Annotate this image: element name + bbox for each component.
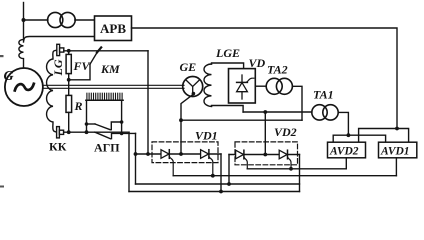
wire: GE output diagonal xyxy=(181,95,193,155)
thyristor VS4 xyxy=(279,150,287,159)
node: g4 on Wa xyxy=(289,167,293,171)
wire: L1 right drop to bottom bus xyxy=(220,154,222,192)
wire: W1 to TA1 xyxy=(243,111,312,113)
shaft double line G to GE xyxy=(43,84,184,86)
svg-text:KM: KM xyxy=(100,62,120,76)
generator G tilde xyxy=(15,84,34,91)
GE star xyxy=(186,80,200,97)
wire: Wb gate wire to VD1 xyxy=(173,175,396,177)
thyristor VS1 xyxy=(161,150,169,159)
AGP upper contact hook xyxy=(111,122,121,130)
node: top wire on L1 xyxy=(146,152,150,156)
svg-text:TA2: TA2 xyxy=(267,63,288,77)
node: L1 left junction xyxy=(134,152,138,156)
wire: We bottom bus xyxy=(129,191,300,193)
node: ARV on upper bar xyxy=(395,127,399,131)
transformer winding on bus (3 arcs) xyxy=(19,39,24,68)
slip ring brush KK top xyxy=(57,44,60,55)
thyristor block VD1 dashed box xyxy=(152,142,218,163)
svg-text:R: R xyxy=(74,99,83,113)
regulator ARV box xyxy=(95,16,132,41)
regulator AVD2 box xyxy=(328,142,366,158)
contactor KM blade xyxy=(90,52,98,65)
node: GE output terminal xyxy=(192,92,196,96)
node: TA1 on lower bar xyxy=(347,133,351,137)
transformer TV (two overlapping circles) xyxy=(48,12,63,27)
wire: TA2 return wire xyxy=(181,119,302,121)
contactor KM fixed contact tick xyxy=(97,47,101,52)
svg-text:АГП: АГП xyxy=(94,141,120,155)
wire: R chain from node xyxy=(68,80,70,96)
svg-text:АРВ: АРВ xyxy=(100,21,126,36)
wire: LGE top to VD box xyxy=(212,63,244,69)
thyristor block VD2 dashed box xyxy=(235,142,298,165)
wire: L1 thyristor wire xyxy=(136,153,222,155)
node: FV/KM junction xyxy=(67,78,71,82)
wire: TA1 to AVD bar xyxy=(338,112,348,135)
wire: FV bottom xyxy=(68,74,70,80)
node: GE feed on L1 xyxy=(179,152,183,156)
node: bus tap junction xyxy=(22,18,26,22)
wire: VD2 feed drop xyxy=(264,112,266,155)
wire: Wa gate wire to VD2 xyxy=(247,168,346,170)
node: upper contact hook xyxy=(120,120,124,124)
svg-text:G: G xyxy=(4,69,14,84)
svg-text:AVD1: AVD1 xyxy=(380,146,410,158)
node: L2 drop on Wcd xyxy=(227,182,231,186)
wire: upper bar with pins xyxy=(359,129,409,143)
current transformer TA2 xyxy=(266,78,282,94)
wire: TA2 loop down xyxy=(292,86,302,120)
wire: AVD2 gate output xyxy=(345,158,347,169)
node: FV tap xyxy=(67,49,71,53)
AGP upper contact stub xyxy=(87,123,96,125)
slip ring brush KK bottom xyxy=(57,127,60,138)
svg-text:VD: VD xyxy=(249,56,266,70)
AGP grid bottom rail xyxy=(86,99,123,101)
exciter field winding LGE (arcs) xyxy=(204,64,212,106)
node: upper contact stub xyxy=(85,122,89,126)
svg-text:LG: LG xyxy=(51,59,65,76)
wire: lower bar with pins xyxy=(333,135,385,142)
svg-text:LGE: LGE xyxy=(215,46,240,60)
node: AGP left leg on bottom wire xyxy=(85,130,89,134)
wire: L2 right drop xyxy=(299,155,301,192)
wire: LGE bottom xyxy=(212,106,244,113)
wire: top field wire drop to VD1 xyxy=(147,51,149,154)
thyristor VS3 xyxy=(236,150,244,159)
svg-text:VD1: VD1 xyxy=(195,129,218,143)
wire: AGP contact to L1 drop xyxy=(135,133,137,184)
AGP arc-quenching grid comb xyxy=(87,93,122,100)
node: VD2 feed on L2 xyxy=(263,153,267,157)
node: VD2 feed tap xyxy=(263,110,267,114)
AGP upper contact blade xyxy=(95,124,110,130)
svg-text:GE: GE xyxy=(180,60,197,74)
regulator AVD1 box xyxy=(379,142,417,158)
wire: KM return loop xyxy=(69,64,90,80)
node: R to bottom wire xyxy=(67,130,71,134)
field winding LG (arcs) xyxy=(47,50,57,132)
AGP lower contact hook xyxy=(112,133,136,138)
wire: AGP grid left leg xyxy=(86,100,88,132)
wire: AVD1 gate output xyxy=(395,158,397,176)
wire: VT line to ARV input 1 xyxy=(24,19,48,21)
exciter GE circle xyxy=(183,77,203,97)
svg-text:AVD2: AVD2 xyxy=(329,146,359,158)
rectifier VD box xyxy=(229,69,256,103)
wire: VD to TA2 xyxy=(255,85,266,87)
wire: second ARV input from bus xyxy=(24,37,95,43)
node: L1 drop on We xyxy=(219,190,223,194)
wire: AGP grid right leg xyxy=(121,100,123,133)
thyristor VD symbol xyxy=(241,75,243,99)
svg-text:FV: FV xyxy=(73,59,91,73)
node: lower contact hook xyxy=(120,132,124,136)
wire: FV stub xyxy=(68,51,70,55)
wire: R bottom xyxy=(68,112,70,132)
wire: field negative drop to bottom bus xyxy=(128,132,130,191)
node: GE wire to TA2 loop xyxy=(179,118,183,122)
wire: L2 thyristor wire xyxy=(229,154,300,156)
svg-text:КК: КК xyxy=(49,140,67,154)
wire: Wcd bus xyxy=(136,183,300,185)
svg-text:VD2: VD2 xyxy=(274,125,297,139)
resistor R xyxy=(66,95,72,112)
wire: ARV output to right xyxy=(132,28,398,129)
wire: top field wire xyxy=(64,50,148,52)
current transformer TA1 xyxy=(312,105,327,120)
AGP lower contact blade xyxy=(95,132,110,139)
thyristor VS2 xyxy=(201,150,209,159)
node: g2 on Wb xyxy=(211,174,215,178)
generator G circle xyxy=(5,68,43,106)
wire: bottom field wire xyxy=(64,131,129,133)
wire: generator HV bus vertical xyxy=(23,3,25,41)
svg-text:TA1: TA1 xyxy=(313,88,334,102)
discharge gap FV xyxy=(66,54,71,73)
wire: L2 left drop xyxy=(228,155,230,185)
